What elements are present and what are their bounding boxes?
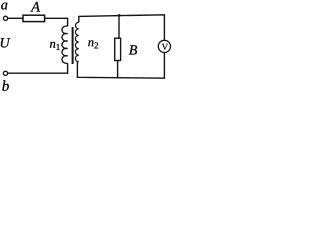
label a	[1, 3, 7, 10]
junction node	[118, 14, 121, 17]
wire box A to primary coil	[45, 18, 68, 26]
secondary coil n2	[75, 22, 78, 62]
label B	[129, 45, 137, 54]
terminal a	[3, 16, 7, 20]
label U	[1, 38, 11, 47]
label n2	[88, 40, 93, 46]
transformer core	[72, 27, 74, 64]
label A	[30, 2, 40, 12]
wire B branch bottom	[117, 61, 119, 78]
voltmeter letter V	[162, 44, 168, 50]
label n1 subscript 1	[57, 44, 60, 50]
label n1	[50, 42, 55, 48]
terminal b	[3, 71, 7, 75]
wire primary coil to b	[8, 63, 68, 73]
voltmeter V	[158, 40, 170, 52]
wire secondary top to voltmeter	[79, 15, 165, 41]
label n2 subscript 2	[94, 42, 98, 48]
wire a to box A	[8, 17, 23, 19]
box A	[23, 15, 45, 21]
wire B branch top	[118, 16, 120, 38]
bottom wire of secondary loop	[77, 62, 165, 78]
wire voltmeter to bottom	[163, 53, 165, 79]
label b	[2, 80, 8, 91]
box B	[115, 38, 121, 60]
primary coil n1	[62, 26, 68, 63]
